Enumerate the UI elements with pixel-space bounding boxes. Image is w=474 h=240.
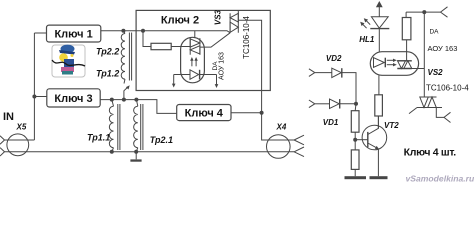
connector X4 fork top xyxy=(294,135,304,145)
svg-text:ТС106-10-4: ТС106-10-4 xyxy=(426,84,469,93)
transformer winding Tr2.1 xyxy=(134,100,138,152)
svg-text:Ключ 4: Ключ 4 xyxy=(185,108,224,120)
node dot base junction xyxy=(353,138,357,142)
node dot left winding top xyxy=(110,98,114,102)
transformer core lower right xyxy=(141,104,143,150)
label X4 xyxy=(276,123,287,132)
svg-text:Ключ 2: Ключ 2 xyxy=(161,15,199,27)
svg-text:VS3: VS3 xyxy=(214,9,223,25)
optocoupler U2 led xyxy=(374,58,386,68)
key block Ключ 4 xyxy=(177,105,231,121)
optocoupler U1 body xyxy=(181,37,205,83)
label Tr1.1 xyxy=(87,133,110,143)
label IN xyxy=(3,111,14,123)
common arrow right xyxy=(215,75,219,89)
wire to Ключ 3 xyxy=(34,96,46,98)
label Tr2.2 xyxy=(96,47,119,57)
node dot transformer top xyxy=(121,29,125,33)
svg-text:vSamodelkina.ru: vSamodelkina.ru xyxy=(406,173,474,183)
transformer core upper xyxy=(129,33,131,81)
svg-text:X5: X5 xyxy=(16,123,27,132)
transformer winding Tr2.2 and Tr1.2 coil xyxy=(121,34,125,80)
label Ключ 4 шт. xyxy=(404,146,457,158)
label АОУ 163 right xyxy=(428,44,458,53)
resistor R1 xyxy=(351,104,359,150)
label Ключ 2 xyxy=(161,15,199,27)
fork VS2 output xyxy=(444,112,451,122)
node dot upper winding bottom xyxy=(122,98,126,102)
transformer winding Tr2.2/Tr1.2 top lead xyxy=(123,31,125,34)
optocoupler U2 light arrows xyxy=(387,59,397,67)
svg-text:VT2: VT2 xyxy=(384,121,399,130)
connector X4 xyxy=(267,135,291,159)
node dot right winding top xyxy=(134,98,138,102)
connector X4 fork bottom xyxy=(294,147,304,157)
label DA right xyxy=(429,29,439,36)
label VS3 vertical xyxy=(214,9,223,25)
label АОУ 163 vertical xyxy=(218,52,225,80)
optocoupler U1 led xyxy=(174,70,217,80)
wire phototriac to VS3 gate xyxy=(200,33,230,47)
led HL1 supply arrow xyxy=(376,1,383,17)
label VT2 xyxy=(384,121,399,130)
svg-text:Тр1.2: Тр1.2 xyxy=(96,69,119,79)
wire Ключ4 right xyxy=(231,112,262,114)
top rail right xyxy=(406,12,440,17)
common arrow left xyxy=(172,75,176,88)
node dot rail left winding xyxy=(110,150,114,154)
svg-text:Тр1.1: Тр1.1 xyxy=(87,133,110,143)
label HL1 xyxy=(359,35,375,44)
wire VS2 anode column xyxy=(423,12,425,97)
svg-text:Ключ 3: Ключ 3 xyxy=(54,93,92,105)
key block Ключ 2 outline xyxy=(136,10,270,90)
svg-text:HL1: HL1 xyxy=(359,35,375,44)
wire base xyxy=(355,139,368,141)
connector X5 xyxy=(7,134,29,156)
connector X5 fork bottom xyxy=(0,148,5,156)
wire Ключ1 right to Ключ2 xyxy=(101,31,230,33)
led HL1 xyxy=(370,17,389,52)
node dot Ключ3 left xyxy=(32,95,36,99)
node dot VD junction xyxy=(354,102,358,106)
winding bottom arrow xyxy=(124,79,130,93)
label Tr2.1 xyxy=(150,135,173,145)
transistor VT2 xyxy=(362,116,387,176)
triac VS2 xyxy=(409,97,444,117)
wire phototriac out xyxy=(412,68,425,70)
svg-text:Тр2.1: Тр2.1 xyxy=(150,135,173,145)
fork output top right xyxy=(441,7,448,17)
svg-text:Тр2.2: Тр2.2 xyxy=(96,47,119,57)
wire vertical bus x=34.4 down to X5 xyxy=(33,33,35,140)
node dot rail ground xyxy=(134,150,138,154)
label VD2 xyxy=(326,54,342,63)
key block Ключ 1 xyxy=(47,25,101,42)
wire bottom rail from X5 to X4 fork xyxy=(5,151,295,153)
node dot top rail xyxy=(422,10,426,14)
wire Ключ3 right rail to Ключ4 xyxy=(100,100,177,114)
resistor R3 xyxy=(375,75,383,128)
ground VT2 xyxy=(370,176,388,179)
key block Ключ 3 xyxy=(47,89,100,107)
led HL1 light arrows xyxy=(360,18,370,28)
label ТС106-10-4 right xyxy=(426,84,469,93)
node dot Ключ2 branch xyxy=(141,29,145,33)
svg-text:IN: IN xyxy=(3,111,14,123)
optocoupler U2 body xyxy=(370,52,418,76)
triac VS3 xyxy=(230,10,238,32)
transformer core lower left xyxy=(118,104,120,150)
resistor in Ключ2 xyxy=(143,31,190,50)
optocoupler U1 light arrows xyxy=(190,57,198,66)
wire VS3 output down to X4 xyxy=(238,20,294,140)
svg-text:VD2: VD2 xyxy=(326,54,342,63)
diode VD1 xyxy=(309,99,356,108)
svg-text:DA: DA xyxy=(429,29,439,36)
wire phototriac top to rail xyxy=(194,31,196,38)
svg-text:АОУ 163: АОУ 163 xyxy=(218,52,225,80)
node dot X4 branch xyxy=(260,111,264,115)
wire from Ключ 1 left to vertical bus xyxy=(34,32,46,34)
label DA vertical xyxy=(212,61,219,71)
svg-text:Ключ 4 шт.: Ключ 4 шт. xyxy=(404,146,457,158)
wire X5 top chord xyxy=(5,139,35,141)
optocoupler U1 phototriac xyxy=(190,38,200,55)
ground xyxy=(130,152,141,162)
wire R4 to phototriac xyxy=(406,40,408,61)
ground R2 xyxy=(345,176,367,179)
cartoon picture xyxy=(52,45,85,77)
svg-text:X4: X4 xyxy=(276,123,287,132)
label Tr1.2 xyxy=(96,69,119,79)
svg-text:VD1: VD1 xyxy=(323,118,339,127)
label VS2 xyxy=(428,68,444,77)
resistor R4 xyxy=(402,18,411,40)
svg-text:Ключ 1: Ключ 1 xyxy=(54,28,92,40)
transformer winding Tr1.1 xyxy=(109,100,113,152)
connector X5 fork top xyxy=(0,136,5,144)
watermark xyxy=(406,173,474,183)
label X5 xyxy=(16,123,27,132)
svg-text:АОУ 163: АОУ 163 xyxy=(428,44,458,53)
svg-text:ТС106-10-4: ТС106-10-4 xyxy=(242,16,251,59)
label ТС106-10-4 vertical xyxy=(242,16,251,59)
resistor R2 xyxy=(351,150,359,176)
diode VD2 xyxy=(309,68,356,104)
optocoupler U2 phototriac xyxy=(397,61,412,69)
svg-text:VS2: VS2 xyxy=(428,68,444,77)
label VD1 xyxy=(323,118,339,127)
